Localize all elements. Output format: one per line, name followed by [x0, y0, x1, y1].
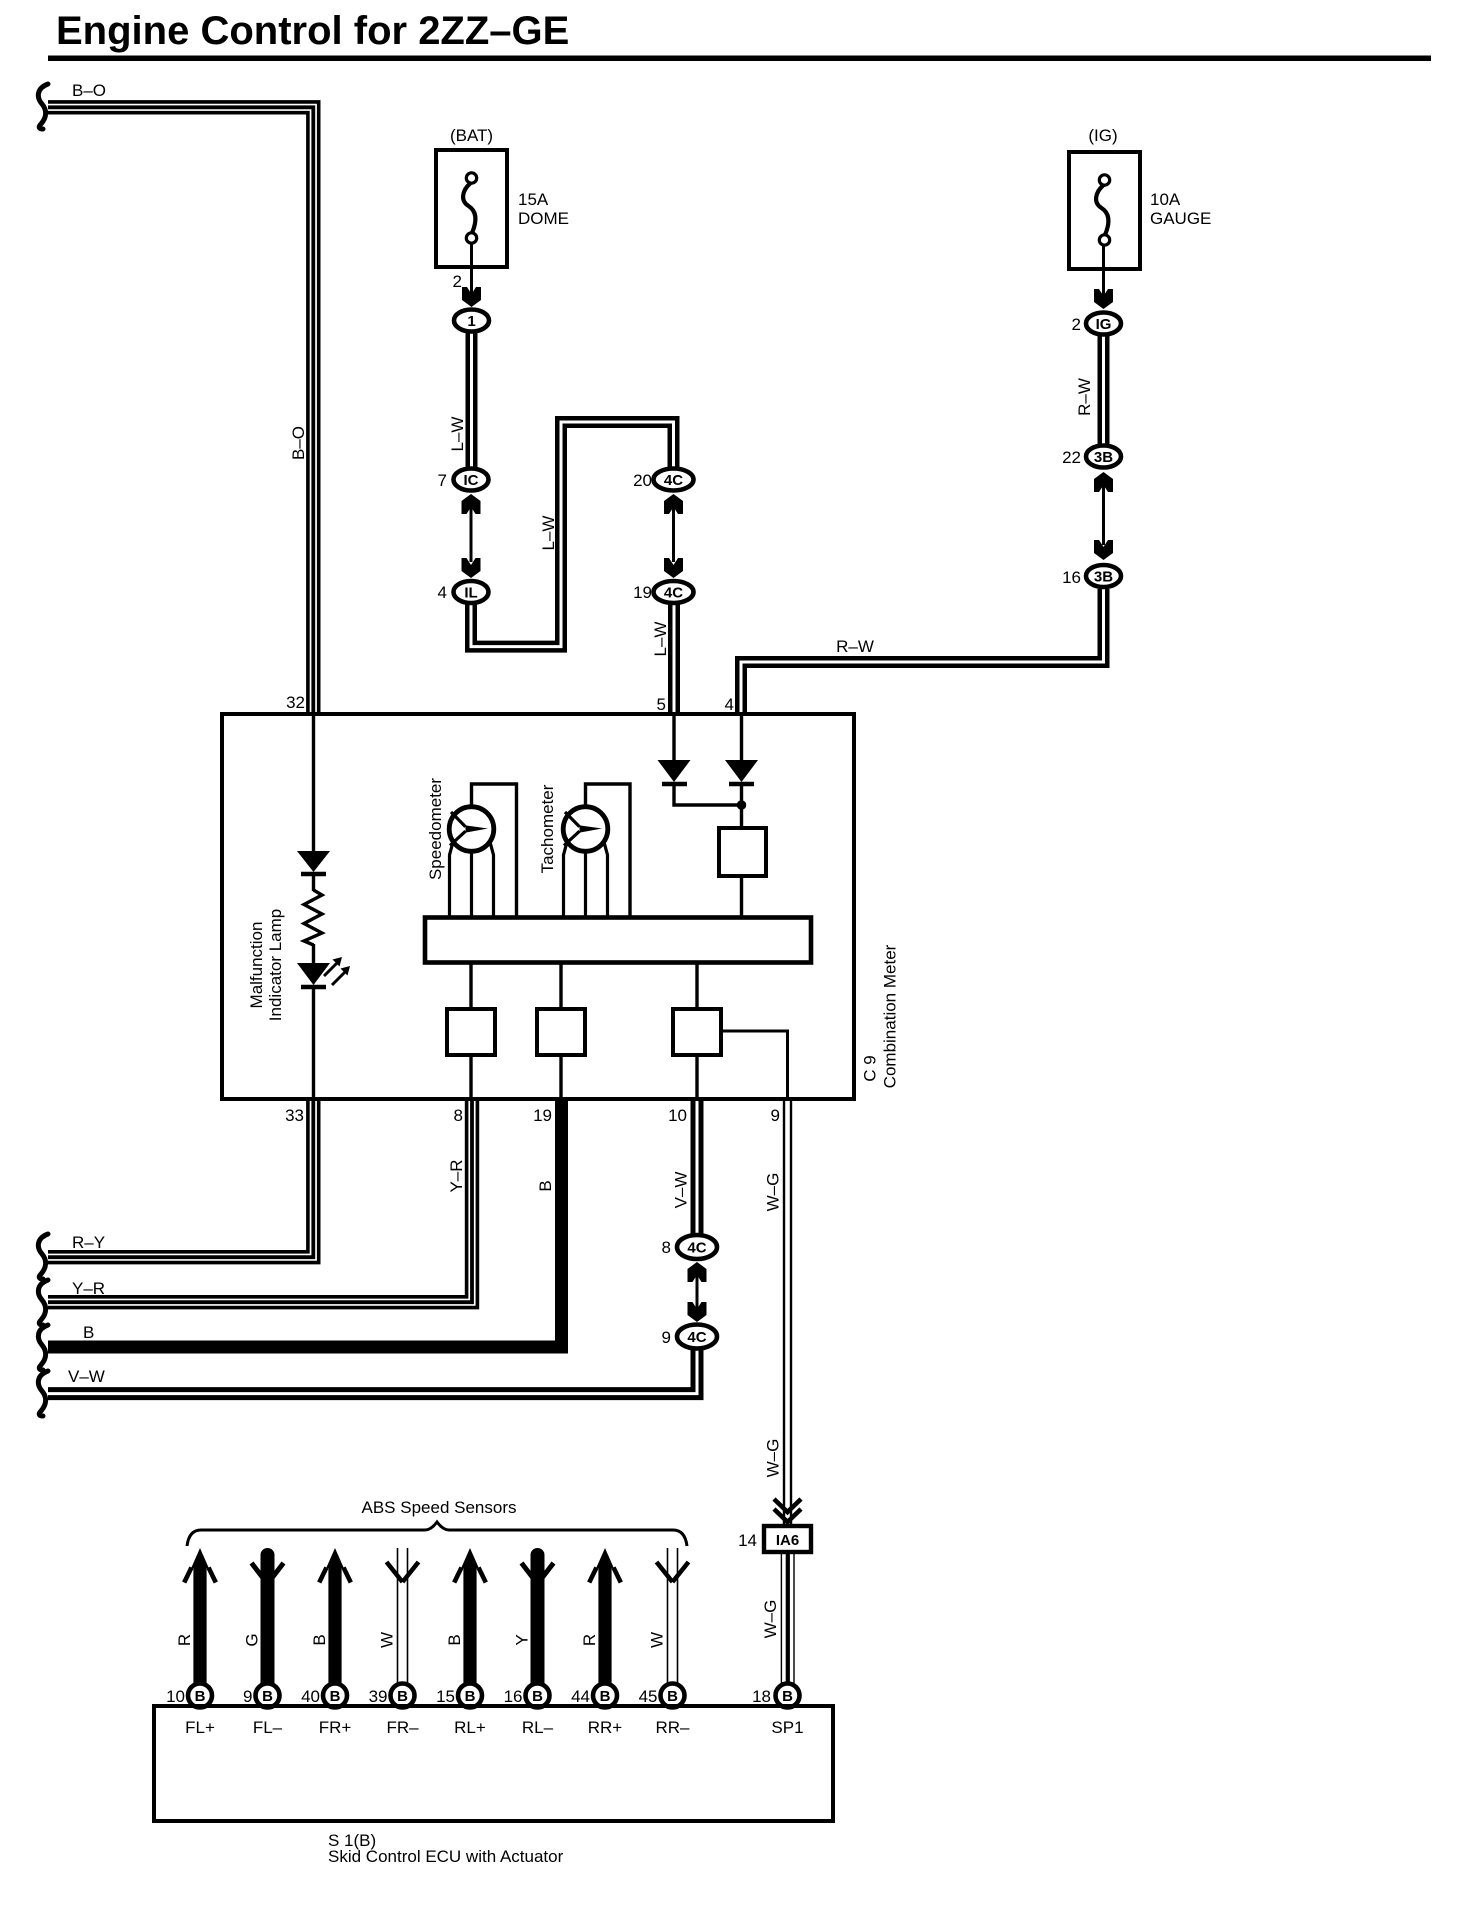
- ECU terminal label FL+: [185, 1718, 215, 1737]
- wire bus to box (pin 8): [469, 962, 472, 1009]
- wire B-O (triple stripe, left edge to pin 32): [48, 102, 319, 716]
- wire 8 4C to 9 4C: [696, 1272, 699, 1312]
- label Speedometer (vertical): [426, 778, 445, 880]
- svg-text:B: B: [195, 1688, 206, 1705]
- wire resistor to LED: [312, 944, 315, 963]
- wire R-Y (pin 33 to left edge, triple stripe): [48, 1099, 319, 1263]
- label ABS Speed Sensors: [362, 1498, 517, 1517]
- pin 8 label (4C): [662, 1238, 671, 1257]
- connector brace B-O (top left continuation): [38, 84, 48, 129]
- wire pin 32 to MIL diode: [312, 716, 315, 851]
- svg-text:8: 8: [662, 1238, 671, 1257]
- ABS speed sensor wire RR–: [657, 1548, 689, 1683]
- pin 15 label: [436, 1687, 455, 1706]
- connector 20 4C: [654, 469, 694, 491]
- svg-text:DOME: DOME: [518, 209, 569, 228]
- svg-text:4C: 4C: [687, 1329, 706, 1346]
- pin 33 label: [285, 1106, 304, 1125]
- svg-text:5: 5: [657, 695, 666, 714]
- diode (pin 5): [658, 760, 691, 784]
- wire L-W (19 4C to meter pin 5): [670, 604, 678, 716]
- svg-text:B: B: [465, 1688, 476, 1705]
- svg-text:19: 19: [633, 583, 652, 602]
- svg-text:B: B: [532, 1688, 543, 1705]
- pin 39 (B) circle: [391, 1684, 415, 1708]
- pin 32 label: [286, 693, 305, 712]
- svg-text:Y: Y: [513, 1634, 532, 1645]
- wire pin 4 to diode: [740, 716, 743, 760]
- pin 9 label (4C): [662, 1328, 671, 1347]
- svg-text:IG: IG: [1096, 316, 1112, 333]
- wire W-G (pin 9 to IA6, thin double): [784, 1099, 791, 1526]
- wire bus to box (pin 10): [695, 962, 698, 1009]
- ABS speed sensor wire FR–: [387, 1548, 419, 1683]
- fuse 10A GAUGE: [1069, 152, 1140, 269]
- wire L-W (IL to connector 20 4C, S-path): [467, 418, 677, 650]
- wire fuse DOME to connector 1: [470, 244, 473, 294]
- skid control ECU box: [154, 1706, 833, 1821]
- svg-text:W: W: [648, 1632, 667, 1648]
- pin 45 (B) circle: [661, 1684, 685, 1708]
- component box (pin 8): [447, 1009, 495, 1055]
- ABS speed sensor wire RR+: [589, 1548, 621, 1683]
- svg-text:W–G: W–G: [764, 1173, 783, 1212]
- pin 16 label: [1062, 568, 1081, 587]
- ECU terminal label RL+: [454, 1718, 486, 1737]
- svg-text:14: 14: [738, 1531, 757, 1550]
- svg-text:1: 1: [467, 313, 475, 330]
- pin 18 (B) circle: [776, 1684, 800, 1708]
- connector 9 4C: [677, 1325, 717, 1349]
- svg-text:B: B: [262, 1688, 273, 1705]
- arrow down into 9 4C: [688, 1302, 707, 1322]
- pin 8 label: [454, 1106, 463, 1125]
- wire box to pin 9: [721, 1031, 788, 1099]
- ABS speed sensor wire RL–: [522, 1555, 554, 1683]
- connector 16 3B: [1086, 565, 1121, 587]
- label L-W (vertical): [448, 417, 467, 452]
- pin 45 label: [639, 1687, 658, 1706]
- svg-text:G: G: [243, 1633, 262, 1646]
- svg-text:32: 32: [286, 693, 305, 712]
- speedometer loop wiring: [450, 784, 517, 919]
- svg-text:(IG): (IG): [1088, 126, 1117, 145]
- arrow into connector IG: [1094, 289, 1113, 309]
- wire diode 5 to junction: [674, 784, 742, 805]
- arrow up into 22 3B: [1094, 472, 1113, 492]
- svg-text:R: R: [580, 1634, 599, 1646]
- component box (pin 19): [537, 1009, 585, 1055]
- svg-text:R–W: R–W: [1075, 378, 1094, 416]
- svg-text:FR–: FR–: [386, 1718, 419, 1737]
- wire L-W (connector 1 to IC): [468, 333, 476, 468]
- svg-text:Speedometer: Speedometer: [426, 778, 445, 880]
- svg-text:Indicator Lamp: Indicator Lamp: [266, 909, 285, 1021]
- arrow down into 19 4C: [664, 558, 683, 578]
- svg-text:L–W: L–W: [651, 622, 670, 657]
- svg-text:B–O: B–O: [72, 81, 106, 100]
- svg-text:Y–R: Y–R: [447, 1159, 466, 1192]
- svg-text:IL: IL: [464, 585, 477, 602]
- pin 9 label: [243, 1687, 252, 1706]
- pin 10 label: [166, 1687, 185, 1706]
- svg-text:19: 19: [533, 1106, 552, 1125]
- ECU terminal label FR+: [319, 1718, 352, 1737]
- label B-O (vertical, on wire): [289, 426, 308, 460]
- wire fuse GAUGE to connector IG: [1102, 246, 1105, 297]
- junction connector IA6: [764, 1526, 811, 1552]
- label R (vertical, sensor wire): [175, 1634, 194, 1646]
- pin 18 label: [752, 1687, 771, 1706]
- label (IG): [1088, 126, 1117, 145]
- svg-text:RL+: RL+: [454, 1718, 486, 1737]
- svg-text:B: B: [600, 1688, 611, 1705]
- svg-text:B: B: [397, 1688, 408, 1705]
- pin 19 label: [533, 1106, 552, 1125]
- svg-text:IC: IC: [464, 472, 479, 489]
- svg-text:22: 22: [1062, 448, 1081, 467]
- svg-text:FL–: FL–: [253, 1718, 283, 1737]
- svg-text:10: 10: [668, 1106, 687, 1125]
- pin 39 label: [369, 1687, 388, 1706]
- svg-text:Skid Control ECU with Actuator: Skid Control ECU with Actuator: [328, 1847, 564, 1866]
- component box (pin 10): [673, 1009, 721, 1055]
- svg-text:W–G: W–G: [764, 1439, 783, 1478]
- pin 2 label (DOME fuse): [453, 272, 462, 291]
- svg-text:R–Y: R–Y: [72, 1233, 105, 1252]
- pin 44 label: [571, 1687, 590, 1706]
- svg-text:9: 9: [243, 1687, 252, 1706]
- pin 20 label: [633, 471, 652, 490]
- combination meter box C9: [222, 714, 854, 1099]
- wire V-W (pin 10 to connector 8 4C): [693, 1099, 701, 1235]
- pin 10 label: [668, 1106, 687, 1125]
- label V-W: [68, 1367, 105, 1386]
- label 15A DOME: [518, 190, 569, 228]
- label W-G (vertical, upper): [764, 1173, 783, 1212]
- svg-text:4C: 4C: [687, 1240, 706, 1257]
- svg-text:RL–: RL–: [522, 1718, 554, 1737]
- svg-text:W–G: W–G: [761, 1600, 780, 1639]
- label Y-R (vertical): [447, 1159, 466, 1192]
- label (BAT): [450, 126, 493, 145]
- svg-text:B: B: [782, 1688, 793, 1705]
- diode (pin 4): [725, 760, 758, 784]
- svg-text:IA6: IA6: [776, 1532, 799, 1549]
- connector 1: [454, 310, 489, 332]
- wire 22 3B to 16 3B: [1102, 482, 1105, 545]
- svg-text:Combination Meter: Combination Meter: [881, 944, 900, 1088]
- svg-text:R–W: R–W: [836, 637, 874, 656]
- junction node: [737, 800, 747, 810]
- arrow down into 16 3B: [1094, 540, 1113, 560]
- connector brace R-Y: [38, 1234, 48, 1279]
- svg-text:SP1: SP1: [771, 1718, 803, 1737]
- pin 7 label: [438, 471, 447, 490]
- pin 16 label: [504, 1687, 523, 1706]
- brace over ABS speed sensors: [187, 1522, 687, 1546]
- resistor (MIL chain): [304, 890, 322, 945]
- label W (vertical, sensor wire): [648, 1632, 667, 1648]
- speedometer gauge: [449, 807, 494, 852]
- arrow down into IL: [462, 558, 481, 578]
- svg-text:16: 16: [504, 1687, 523, 1706]
- svg-text:B: B: [667, 1688, 678, 1705]
- svg-text:20: 20: [633, 471, 652, 490]
- svg-text:V–W: V–W: [672, 1172, 691, 1209]
- pin 9 label: [771, 1106, 780, 1125]
- svg-text:4: 4: [438, 583, 447, 602]
- wire LED to pin 33: [312, 987, 315, 1099]
- LED malfunction indicator lamp: [297, 957, 350, 987]
- svg-text:Y–R: Y–R: [72, 1279, 105, 1298]
- svg-text:B: B: [310, 1634, 329, 1645]
- svg-text:45: 45: [639, 1687, 658, 1706]
- label R-W (vertical): [1075, 378, 1094, 416]
- svg-text:9: 9: [662, 1328, 671, 1347]
- wire W-G (IA6 to pin 18): [781, 1552, 794, 1683]
- connector 19 4C: [654, 581, 694, 603]
- svg-text:B–O: B–O: [289, 426, 308, 460]
- svg-text:(BAT): (BAT): [450, 126, 493, 145]
- svg-text:9: 9: [771, 1106, 780, 1125]
- label W (vertical, sensor wire): [378, 1632, 397, 1648]
- wire IC to IL: [470, 505, 473, 562]
- svg-text:FL+: FL+: [185, 1718, 215, 1737]
- svg-text:GAUGE: GAUGE: [1150, 209, 1211, 228]
- pin 9 (B) circle: [256, 1684, 280, 1708]
- svg-text:4C: 4C: [664, 472, 683, 489]
- fuse 15A DOME: [436, 150, 507, 267]
- label R (vertical, sensor wire): [580, 1634, 599, 1646]
- svg-text:10A: 10A: [1150, 190, 1181, 209]
- label L-W (vertical, pin 5): [651, 622, 670, 657]
- wire diode 4 to resistor box: [740, 784, 743, 830]
- wire box to pin 19: [559, 1055, 562, 1099]
- connector IC: [454, 469, 489, 491]
- label G (vertical, sensor wire): [243, 1633, 262, 1646]
- pin 5 label: [657, 695, 666, 714]
- label R-Y: [72, 1233, 105, 1252]
- svg-text:8: 8: [454, 1106, 463, 1125]
- wire box to pin 10: [695, 1055, 698, 1099]
- svg-text:W: W: [378, 1632, 397, 1648]
- label Y-R: [72, 1279, 105, 1298]
- label B (vertical, sensor wire): [445, 1634, 464, 1645]
- connector brace B: [38, 1325, 48, 1370]
- label V-W (vertical): [672, 1172, 691, 1209]
- svg-text:RR+: RR+: [588, 1718, 623, 1737]
- label C 9 (vertical): [861, 1055, 880, 1081]
- connector IL: [454, 581, 489, 603]
- label W-G (vertical, middle): [764, 1439, 783, 1478]
- label L-W (vertical, S-path): [539, 516, 558, 551]
- diode (MIL chain): [297, 851, 330, 874]
- svg-text:15: 15: [436, 1687, 455, 1706]
- svg-text:V–W: V–W: [68, 1367, 105, 1386]
- wire R-W (IG to 22 3B): [1100, 336, 1108, 444]
- pin 10 (B) circle: [188, 1684, 212, 1708]
- label B (vertical): [536, 1180, 555, 1191]
- svg-text:B: B: [330, 1688, 341, 1705]
- arrow up into IC: [462, 494, 481, 514]
- pin 19 label (4C): [633, 583, 652, 602]
- ECU terminal label RR+: [588, 1718, 623, 1737]
- wire R-W (16 3B to meter pin 4): [737, 589, 1107, 716]
- pin 22 label: [1062, 448, 1081, 467]
- label B: [83, 1323, 94, 1342]
- svg-text:10: 10: [166, 1687, 185, 1706]
- svg-text:15A: 15A: [518, 190, 549, 209]
- wire 20 4C to 19 4C: [672, 505, 675, 562]
- label 10A GAUGE: [1150, 190, 1211, 228]
- wire Y-R (pin 8 to left edge, triple stripe): [48, 1099, 477, 1308]
- pin 14 label: [738, 1531, 757, 1550]
- ECU terminal label RL–: [522, 1718, 554, 1737]
- svg-text:L–W: L–W: [539, 516, 558, 551]
- label R-W (horizontal): [836, 637, 874, 656]
- wire pin 5 to diode: [672, 716, 675, 760]
- label Y (vertical, sensor wire): [513, 1634, 532, 1645]
- svg-text:B: B: [83, 1323, 94, 1342]
- svg-text:16: 16: [1062, 568, 1081, 587]
- wire box to pin 8: [469, 1055, 472, 1099]
- ECU terminal label RR–: [655, 1718, 690, 1737]
- svg-text:RR–: RR–: [655, 1718, 690, 1737]
- svg-text:4C: 4C: [664, 585, 683, 602]
- svg-text:R: R: [175, 1634, 194, 1646]
- svg-text:B: B: [445, 1634, 464, 1645]
- svg-text:2: 2: [453, 272, 462, 291]
- svg-text:44: 44: [571, 1687, 590, 1706]
- svg-text:ABS Speed Sensors: ABS Speed Sensors: [362, 1498, 517, 1517]
- svg-text:33: 33: [285, 1106, 304, 1125]
- ECU terminal label FL–: [253, 1718, 283, 1737]
- arrow into connector 1: [462, 287, 481, 307]
- bus bar (meter internal): [425, 918, 811, 963]
- label Malfunction Indicator Lamp (vertical): [247, 909, 285, 1021]
- connector brace V-W: [38, 1371, 48, 1416]
- label B-O: [72, 81, 106, 100]
- pin 2 label (IG): [1072, 315, 1081, 334]
- label S 1(B) Skid Control ECU with Actuator: [328, 1831, 564, 1866]
- component box (pin 4 branch): [719, 828, 766, 876]
- pin 44 (B) circle: [593, 1684, 617, 1708]
- arrow up into 8 4C: [688, 1262, 707, 1282]
- label B (vertical, sensor wire): [310, 1634, 329, 1645]
- pin 40 label: [301, 1687, 320, 1706]
- svg-text:7: 7: [438, 471, 447, 490]
- ECU terminal label SP1: [771, 1718, 803, 1737]
- ECU terminal label FR–: [386, 1718, 419, 1737]
- ABS speed sensor wire RL+: [454, 1548, 486, 1683]
- ABS speed sensor wire FL–: [252, 1555, 284, 1683]
- label W-G (vertical, lower): [761, 1600, 780, 1639]
- wire bus to box (pin 19): [559, 962, 562, 1009]
- wire V-W (9 4C to left edge): [48, 1349, 701, 1398]
- pin 40 (B) circle: [323, 1684, 347, 1708]
- svg-text:Engine Control for 2ZZ–GE: Engine Control for 2ZZ–GE: [56, 9, 569, 53]
- svg-text:18: 18: [752, 1687, 771, 1706]
- svg-text:39: 39: [369, 1687, 388, 1706]
- svg-text:C 9: C 9: [861, 1055, 880, 1081]
- wire box to bus bar: [740, 876, 743, 919]
- double chevron arrow into IA6: [774, 1499, 801, 1522]
- svg-text:3B: 3B: [1094, 569, 1113, 586]
- tachometer loop wiring: [564, 784, 631, 919]
- svg-text:4: 4: [725, 695, 734, 714]
- ABS speed sensor wire FR+: [319, 1548, 351, 1683]
- wire diode to resistor: [312, 874, 315, 891]
- svg-text:FR+: FR+: [319, 1718, 352, 1737]
- connector IG: [1086, 313, 1121, 335]
- pin 15 (B) circle: [458, 1684, 482, 1708]
- connector 22 3B: [1086, 446, 1121, 468]
- pin 4 label (IL): [438, 583, 447, 602]
- arrow up into 20 4C: [664, 494, 683, 514]
- svg-text:Malfunction: Malfunction: [247, 922, 266, 1009]
- pin 16 (B) circle: [526, 1684, 550, 1708]
- pin 4 label (meter): [725, 695, 734, 714]
- ABS speed sensor wire FL+: [184, 1548, 216, 1683]
- svg-text:Tachometer: Tachometer: [538, 784, 557, 873]
- label Combination Meter (vertical): [881, 944, 900, 1088]
- connector brace Y-R: [38, 1280, 48, 1325]
- svg-text:3B: 3B: [1094, 449, 1113, 466]
- connector 8 4C: [677, 1235, 717, 1259]
- svg-text:B: B: [536, 1180, 555, 1191]
- title: Engine Control for 2ZZ-GE: [48, 9, 1431, 61]
- wire B (pin 19 to left edge, solid): [48, 1099, 562, 1347]
- svg-text:2: 2: [1072, 315, 1081, 334]
- label Tachometer (vertical): [538, 784, 557, 873]
- svg-text:40: 40: [301, 1687, 320, 1706]
- svg-text:L–W: L–W: [448, 417, 467, 452]
- tachometer gauge: [563, 807, 608, 852]
